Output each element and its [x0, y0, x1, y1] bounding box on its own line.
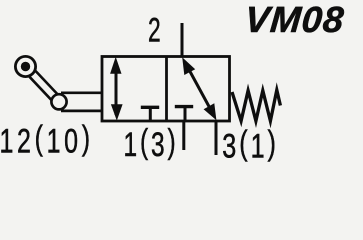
plunger rod (two horizontal lines to valve body) [61, 93, 102, 111]
left box: blocked port 3 (T symbol) [141, 106, 159, 109]
svg-text:12(10): 12(10) [0, 120, 94, 161]
right box: diagonal flow path 2-3 (double arrow) [187, 66, 212, 112]
port 2 line (top) [181, 23, 184, 57]
svg-text:1(3): 1(3) [123, 123, 178, 164]
port 1 stub (bottom) [182, 121, 185, 150]
port label 1(3) [123, 123, 178, 164]
svg-text:2: 2 [148, 12, 161, 50]
lever arm (two parallel lines) [29, 71, 57, 100]
left box: vertical flow path 1-2 (double arrow) [115, 62, 118, 115]
right box: blocked port 1 (T symbol) [175, 105, 193, 108]
port label 2 [148, 12, 161, 50]
divider between positions [165, 57, 168, 122]
port 3 stub (bottom) [215, 121, 218, 155]
svg-text:VM08: VM08 [243, 0, 346, 40]
roller circle with dot [15, 56, 35, 76]
pivot circle [51, 94, 66, 109]
svg-text:3(1): 3(1) [222, 125, 279, 165]
port label 3(1) [222, 125, 279, 166]
port label 12(10) [0, 120, 94, 161]
return spring [232, 90, 280, 121]
valve body outline [102, 57, 230, 122]
